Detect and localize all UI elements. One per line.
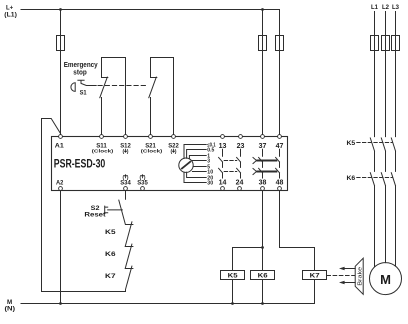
contact 23-24 (double break) (237, 149, 241, 178)
fuse F2 (259, 36, 267, 51)
delayed contact 37-38 (259, 149, 263, 178)
svg-text:37: 37 (259, 141, 267, 150)
contactor K5 main contacts (370, 138, 395, 151)
svg-text:): ) (127, 149, 129, 155)
svg-text:A2: A2 (56, 179, 64, 186)
terminal 38 (261, 187, 265, 191)
svg-text:Emergency: Emergency (64, 62, 98, 69)
NC contact S11-S12 loop (102, 58, 126, 135)
terminal 37 (261, 135, 265, 139)
brake arrow lower (344, 282, 356, 284)
svg-text:(N): (N) (5, 305, 16, 312)
svg-text:(: ( (170, 149, 172, 155)
selector leader lines (184, 145, 206, 183)
terminal A1 (59, 135, 63, 139)
K7 to brake dashed link (327, 275, 355, 277)
svg-text:K6: K6 (105, 251, 116, 258)
wire 38 drop to K6 coil (262, 191, 264, 271)
delay bar row 2 with chevron (256, 171, 277, 173)
terminal 24 (238, 187, 242, 191)
svg-text:K5: K5 (105, 229, 116, 236)
S1 linkage dashed (98, 85, 148, 87)
selector value labels (207, 142, 215, 186)
aux contact K6 (125, 244, 133, 268)
brake arrow upper (344, 268, 356, 270)
phase line L3 (395, 12, 397, 266)
svg-text:stop: stop (73, 69, 86, 76)
junction dot at 37 drop (261, 8, 264, 11)
terminal 14 (221, 187, 225, 191)
emergency stop button S1 symbol (71, 83, 75, 92)
fuse F4 (L1) (371, 36, 379, 51)
svg-text:23: 23 (237, 141, 245, 150)
phase line L2 (385, 12, 387, 263)
terminals bottom edge (59, 187, 282, 191)
delayed contact 47-48 (276, 149, 280, 178)
wire A1 drop (60, 10, 62, 135)
contactor K6 main contacts (370, 173, 395, 186)
relay block PSR-ESD-30 (52, 137, 288, 191)
phase line L1 (374, 12, 376, 267)
svg-text:Brake: Brake (357, 267, 363, 286)
svg-text:K5: K5 (228, 273, 238, 280)
terminal A2 (59, 187, 63, 191)
svg-text:S35: S35 (137, 179, 148, 186)
mechanical link dashes 13-23 (224, 161, 237, 172)
svg-text:PSR-ESD-30: PSR-ESD-30 (54, 156, 106, 170)
terminal 23 (239, 135, 243, 139)
K6 actuation dashes (357, 177, 393, 179)
terminal S35 (141, 187, 145, 191)
wire L+ top rail (21, 9, 280, 11)
terminal S21 (149, 135, 153, 139)
rotary time selector dial (179, 158, 193, 172)
terminal 48 (278, 187, 282, 191)
svg-text:13: 13 (219, 141, 227, 150)
coil K6 (251, 271, 275, 280)
NC contact S21-S22 loop (151, 58, 174, 135)
terminal S22 (172, 135, 176, 139)
terminals top edge (59, 135, 282, 139)
svg-text:14: 14 (219, 177, 227, 186)
terminal S12 (124, 135, 128, 139)
coil return wires (232, 280, 234, 304)
svg-text:): ) (175, 149, 177, 155)
svg-text:47: 47 (276, 141, 284, 150)
aux contact K7 (126, 266, 132, 291)
fuse F6 (L3) (392, 36, 400, 51)
svg-text:M: M (380, 272, 391, 287)
aux contact K5 (125, 222, 133, 247)
svg-text:(L1): (L1) (4, 11, 17, 18)
junction dots on M rail (59, 302, 62, 305)
svg-text:38: 38 (259, 177, 267, 186)
wire reset-chain supply branch (42, 119, 126, 292)
terminal 13 (221, 135, 225, 139)
brake wedge (355, 258, 363, 294)
coil K7 (303, 271, 327, 280)
svg-text:S11: S11 (96, 142, 107, 149)
S2 actuator (105, 206, 123, 214)
junction dot 38/K5 branch (261, 246, 264, 249)
svg-text:K7: K7 (310, 273, 320, 280)
svg-text:K5: K5 (347, 140, 356, 147)
svg-text:S34: S34 (120, 179, 131, 186)
svg-text:(: ( (122, 149, 124, 155)
wire 48 drop to K7 coil (280, 191, 315, 271)
svg-text:K6: K6 (258, 273, 268, 280)
svg-text:S21: S21 (145, 142, 156, 149)
wire 37 drop (262, 10, 264, 135)
svg-text:(Clock): (Clock) (92, 149, 114, 155)
coil K5 (221, 271, 245, 280)
svg-text:L3: L3 (392, 4, 399, 11)
svg-text:48: 48 (276, 177, 284, 186)
svg-text:24: 24 (236, 177, 244, 186)
junction dot at A1 drop (59, 8, 62, 11)
delay bar row 1 with chevron (256, 160, 277, 162)
reset chain from S34 (125, 191, 127, 200)
svg-text:L2: L2 (382, 4, 389, 11)
fuse F5 (L2) (382, 36, 390, 51)
svg-text:K7: K7 (105, 273, 116, 280)
fuse F1 (57, 36, 65, 51)
wire 47 drop (279, 10, 281, 135)
terminal S11 (100, 135, 104, 139)
wire A2 drop to M rail (60, 191, 62, 304)
svg-text:Reset: Reset (84, 211, 106, 218)
svg-text:L1: L1 (371, 4, 378, 11)
svg-text:(Clock): (Clock) (141, 149, 163, 155)
svg-text:A1: A1 (55, 142, 64, 149)
svg-text:S1: S1 (80, 90, 87, 97)
terminal 47 (278, 135, 282, 139)
svg-text:K6: K6 (347, 175, 356, 182)
svg-text:30: 30 (207, 180, 213, 186)
K5 actuation dashes (357, 142, 393, 144)
contact 13-14 (double break) (219, 149, 223, 178)
wire M (N) bottom rail (21, 303, 315, 305)
terminal S34 (124, 187, 128, 191)
pushbutton S2 contact (119, 200, 133, 224)
wire branch to K5 coil (233, 248, 263, 271)
fuse F3 (276, 36, 284, 51)
motor M (370, 263, 402, 295)
